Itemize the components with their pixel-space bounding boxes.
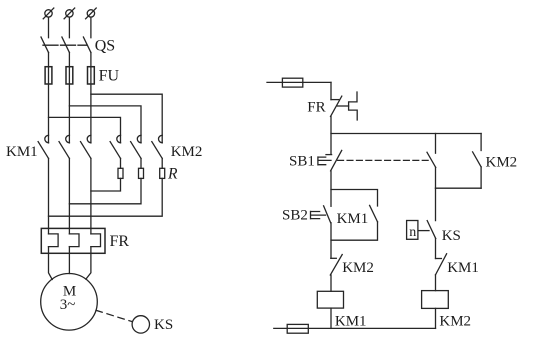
wire contact5 to resistor R2 (140, 158, 142, 168)
wire KM1 NC to coil KM2 (435, 275, 437, 291)
control fuse top (282, 78, 302, 87)
svg-text:KM1: KM1 (447, 260, 479, 276)
wire junction to right branches (331, 133, 481, 135)
branch to KM1 latch (331, 190, 378, 207)
KM2 aux NO contact blade (473, 152, 482, 167)
wire corner to FR contact (330, 82, 332, 99)
FR heater pole 3 (91, 234, 101, 247)
svg-text:3~: 3~ (60, 297, 76, 313)
KM2 NC interlock contact (330, 255, 342, 276)
svg-text:KM2: KM2 (486, 154, 518, 170)
wire down to KM2 aux contact (480, 134, 482, 151)
wire junction bar to KS contact (435, 188, 437, 220)
svg-text:KM2: KM2 (171, 144, 203, 160)
KM1 latch NO contact blade (370, 205, 378, 221)
pushbutton SB2 NO (311, 206, 331, 223)
wire L3 contact to FR (90, 158, 92, 234)
resistor R pole 2 (139, 168, 144, 178)
coil KM1 (317, 291, 343, 308)
KM2 main contact pole 6 (152, 135, 162, 158)
wire contact4 to resistor R1 (120, 158, 122, 168)
disconnect switch QS pole 1 blade (41, 37, 49, 53)
disconnect switch QS pole 3 blade (83, 37, 91, 53)
wire down to SB1-linked contact (435, 134, 437, 154)
thermal relay FR box (41, 228, 105, 253)
wire below SB1-linked contact (435, 167, 437, 188)
pushbutton SB1 NC (318, 150, 342, 171)
KM1 main contact pole 1 (38, 135, 48, 158)
svg-text:KM2: KM2 (342, 260, 374, 276)
svg-text:KM1: KM1 (6, 144, 38, 160)
wire L3 FR to motor (86, 247, 91, 280)
svg-text:KS: KS (442, 228, 461, 244)
wire L3 terminal to QS (90, 17, 92, 38)
fuse FU pole 3 (88, 67, 95, 84)
wire L2 terminal to QS (68, 17, 70, 38)
wire below KM2 aux contact (480, 167, 482, 188)
wire coil KM2 to bottom (435, 308, 437, 328)
resistor R pole 1 (118, 168, 123, 178)
branch L1 to KM2 contact 4 (49, 117, 121, 142)
wire L2 QS to contact row (68, 53, 70, 143)
wire SB1 to SB2 node (330, 171, 332, 206)
FR heater pole 2 (69, 234, 79, 247)
junction bar of parallel contacts (436, 187, 482, 189)
svg-text:SB1: SB1 (289, 153, 315, 169)
dashed link SB1 to braking contact (338, 159, 429, 161)
svg-text:n: n (409, 225, 416, 240)
KM1 main contact pole 2 (59, 135, 69, 158)
wire L2 contact to FR (68, 158, 70, 234)
branch L3 to KM2 contact 6 (91, 94, 162, 143)
dashed shaft link motor to KS (96, 310, 132, 321)
svg-text:R: R (167, 166, 178, 183)
control supply wire top (267, 81, 331, 83)
svg-text:KM1: KM1 (335, 314, 367, 330)
svg-text:KM1: KM1 (337, 211, 369, 227)
QS mechanical link dashed (43, 44, 87, 46)
wire R2 to phase L2 (69, 178, 141, 203)
bottom supply wire (274, 327, 436, 329)
wire L1 terminal to QS (48, 17, 50, 38)
wire L1 contact to FR (48, 158, 50, 234)
wire latch bottom (331, 222, 378, 240)
svg-text:KM2: KM2 (439, 314, 471, 330)
wire L2 FR to motor (68, 247, 70, 274)
wire KM2 NC to coil KM1 (330, 275, 332, 291)
wire L1 FR to motor (49, 247, 53, 280)
FR NC contact (331, 92, 358, 120)
KM1 main contact pole 3 (81, 135, 91, 158)
speed switch KS contact (407, 221, 436, 240)
control fuse bottom (287, 324, 308, 333)
wire FR to junction (330, 117, 332, 155)
wire KS to KM1 NC (435, 239, 437, 259)
wire SB2 to KM2 NC (330, 223, 332, 259)
motor M circle (41, 274, 98, 331)
svg-text:FU: FU (99, 68, 120, 85)
speed switch KS circle (132, 316, 149, 333)
svg-text:SB2: SB2 (282, 207, 308, 223)
svg-text:FR: FR (110, 233, 130, 250)
FR heater pole 1 (49, 234, 59, 247)
KM2 main contact pole 4 (110, 135, 120, 158)
fuse FU pole 1 (45, 67, 52, 84)
wire R3 to phase L1 (49, 178, 163, 216)
KM1 NC interlock contact (436, 254, 447, 275)
svg-text:FR: FR (307, 100, 325, 116)
SB1 linked NO contact blade (427, 152, 436, 167)
wire coil KM1 to bottom (330, 308, 332, 328)
resistor R pole 3 (160, 168, 165, 178)
disconnect switch QS pole 2 blade (62, 37, 70, 53)
wire L1 QS to contact row (48, 53, 50, 143)
coil KM2 (422, 291, 449, 309)
branch L2 to KM2 contact 5 (69, 106, 141, 143)
terminal L3 (86, 8, 97, 19)
svg-text:KS: KS (154, 317, 173, 333)
terminal L2 (64, 8, 75, 19)
wire R1 to phase L3 (91, 178, 121, 191)
fuse FU pole 2 (66, 67, 73, 84)
wire contact6 to resistor R3 (161, 158, 163, 168)
terminal L1 (43, 8, 54, 19)
KM2 main contact pole 5 (131, 135, 141, 158)
wire L3 QS to contact row (90, 53, 92, 143)
svg-text:QS: QS (95, 38, 115, 55)
